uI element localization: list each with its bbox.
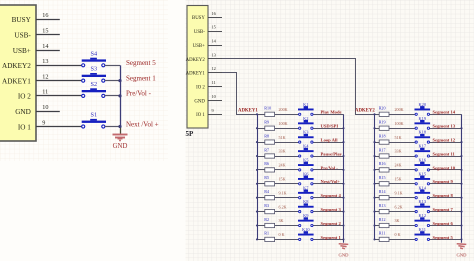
svg-text:R12: R12 [379, 217, 386, 222]
svg-text:Next /Vol +: Next /Vol + [126, 120, 159, 128]
svg-text:24K: 24K [279, 163, 286, 168]
svg-text:15: 15 [212, 25, 216, 30]
svg-text:Pause/Play: Pause/Play [321, 151, 343, 156]
svg-text:R17: R17 [379, 147, 386, 152]
svg-text:K18: K18 [419, 130, 427, 135]
svg-text:14: 14 [42, 43, 48, 50]
svg-text:3K: 3K [279, 218, 284, 223]
svg-text:USB-: USB- [14, 32, 31, 40]
svg-text:9: 9 [212, 108, 214, 113]
svg-text:R2: R2 [264, 217, 269, 222]
svg-text:Pre/Vol -: Pre/Vol - [126, 90, 152, 98]
svg-text:Segment 1: Segment 1 [321, 235, 342, 240]
svg-text:Segment 14: Segment 14 [433, 110, 456, 115]
svg-text:24K: 24K [395, 163, 402, 168]
svg-text:K5: K5 [303, 158, 309, 163]
svg-text:R20: R20 [379, 106, 386, 111]
svg-text:100K: 100K [395, 121, 404, 126]
svg-text:K8: K8 [303, 199, 309, 204]
svg-text:Segment 3: Segment 3 [321, 207, 342, 212]
svg-text:5P: 5P [186, 130, 195, 138]
svg-text:S4: S4 [91, 50, 98, 57]
svg-text:9.1K: 9.1K [395, 190, 403, 195]
svg-text:R19: R19 [379, 120, 386, 125]
svg-text:S3: S3 [91, 66, 98, 73]
svg-text:S2: S2 [91, 81, 98, 88]
svg-text:R16: R16 [379, 161, 386, 166]
svg-text:K17: K17 [419, 144, 427, 149]
svg-text:IO 2: IO 2 [196, 85, 205, 90]
svg-text:R4: R4 [264, 189, 269, 194]
svg-text:9.1K: 9.1K [279, 190, 287, 195]
svg-text:BUSY: BUSY [192, 16, 205, 21]
svg-text:GND: GND [15, 108, 31, 116]
svg-text:ADKEY1: ADKEY1 [2, 77, 31, 85]
svg-text:10: 10 [42, 104, 48, 111]
svg-text:12: 12 [212, 66, 216, 71]
svg-text:USB+: USB+ [13, 47, 31, 55]
svg-text:R7: R7 [264, 147, 269, 152]
svg-text:15: 15 [42, 28, 48, 35]
svg-text:10: 10 [212, 94, 216, 99]
svg-text:K12: K12 [419, 213, 427, 218]
svg-text:Segment 7: Segment 7 [433, 207, 454, 212]
svg-text:R5: R5 [264, 175, 269, 180]
svg-text:12: 12 [42, 73, 48, 80]
svg-text:6.2K: 6.2K [279, 204, 287, 209]
svg-text:ADKEY2: ADKEY2 [355, 108, 375, 113]
svg-text:51K: 51K [279, 135, 286, 140]
svg-text:BUSY: BUSY [12, 16, 32, 24]
svg-text:K4: K4 [303, 144, 309, 149]
svg-text:33K: 33K [395, 149, 402, 154]
svg-text:R15: R15 [379, 175, 386, 180]
svg-text:Loop All: Loop All [321, 138, 339, 143]
svg-text:200K: 200K [279, 107, 288, 112]
svg-text:Segment 8: Segment 8 [433, 193, 454, 198]
svg-text:USD/SPI: USD/SPI [321, 124, 339, 129]
svg-text:Segment 12: Segment 12 [433, 138, 456, 143]
svg-text:IO 1: IO 1 [196, 113, 205, 118]
svg-text:K9: K9 [303, 213, 309, 218]
svg-text:K15: K15 [419, 171, 427, 176]
svg-text:15K: 15K [395, 177, 402, 182]
svg-text:0 K: 0 K [279, 232, 285, 237]
svg-text:S1: S1 [91, 112, 98, 119]
svg-text:51K: 51K [395, 135, 402, 140]
svg-text:K16: K16 [419, 158, 427, 163]
svg-text:Segment 5: Segment 5 [433, 235, 454, 240]
svg-text:Segment 5: Segment 5 [126, 59, 156, 67]
svg-text:R18: R18 [379, 133, 386, 138]
svg-text:200K: 200K [395, 107, 404, 112]
svg-text:USB-: USB- [194, 30, 205, 35]
svg-text:11: 11 [212, 80, 216, 85]
svg-text:ADKEY2: ADKEY2 [2, 62, 31, 70]
svg-text:13: 13 [212, 52, 216, 57]
svg-text:K2: K2 [303, 116, 308, 121]
svg-text:ADKEY2: ADKEY2 [186, 58, 206, 63]
svg-text:ADKEY1: ADKEY1 [186, 72, 206, 77]
svg-text:Segment 9: Segment 9 [433, 179, 454, 184]
svg-text:9: 9 [42, 119, 45, 126]
svg-text:GND: GND [113, 143, 128, 150]
svg-text:Segment 13: Segment 13 [433, 124, 456, 129]
svg-text:100K: 100K [279, 121, 288, 126]
svg-text:R1: R1 [264, 231, 269, 236]
svg-text:IO 1: IO 1 [18, 123, 31, 131]
svg-text:R8: R8 [264, 133, 269, 138]
svg-text:Segment 2: Segment 2 [321, 221, 342, 226]
svg-text:3K: 3K [395, 218, 400, 223]
svg-text:0 K: 0 K [395, 232, 401, 237]
svg-text:R13: R13 [379, 203, 386, 208]
svg-text:Segment 11: Segment 11 [433, 151, 456, 156]
svg-text:IO 2: IO 2 [18, 93, 31, 101]
svg-text:R14: R14 [379, 189, 386, 194]
svg-text:R10: R10 [264, 106, 271, 111]
svg-text:K13: K13 [419, 199, 427, 204]
svg-text:K14: K14 [419, 185, 427, 190]
svg-text:R3: R3 [264, 203, 269, 208]
svg-text:Segment 1: Segment 1 [126, 74, 156, 82]
svg-text:K1: K1 [303, 102, 308, 107]
svg-text:K3: K3 [303, 130, 309, 135]
svg-text:Play Mode: Play Mode [321, 110, 342, 115]
svg-text:R9: R9 [264, 120, 269, 125]
svg-text:GND: GND [194, 99, 205, 104]
svg-text:R11: R11 [379, 231, 386, 236]
svg-text:Next/Vol+: Next/Vol+ [321, 179, 341, 184]
svg-text:K20: K20 [419, 102, 427, 107]
svg-text:33K: 33K [279, 149, 286, 154]
svg-text:Segment 4: Segment 4 [321, 193, 342, 198]
svg-text:6.2K: 6.2K [395, 204, 403, 209]
svg-text:K6: K6 [303, 171, 309, 176]
svg-text:K19: K19 [419, 116, 427, 121]
svg-text:11: 11 [42, 89, 48, 96]
svg-text:K10: K10 [302, 227, 310, 232]
svg-text:15K: 15K [279, 177, 286, 182]
svg-text:GND: GND [339, 252, 350, 257]
svg-text:13: 13 [42, 58, 48, 65]
svg-text:Segment 6: Segment 6 [433, 221, 454, 226]
svg-text:Pre/Vol -: Pre/Vol - [321, 165, 339, 170]
svg-text:R6: R6 [264, 161, 269, 166]
svg-text:ADKEY1: ADKEY1 [238, 108, 258, 113]
svg-text:16: 16 [42, 12, 48, 19]
svg-text:K11: K11 [419, 227, 426, 232]
svg-text:Segment 10: Segment 10 [433, 165, 456, 170]
svg-text:GND: GND [457, 252, 468, 257]
svg-text:K7: K7 [303, 185, 309, 190]
svg-text:USB+: USB+ [193, 44, 205, 49]
